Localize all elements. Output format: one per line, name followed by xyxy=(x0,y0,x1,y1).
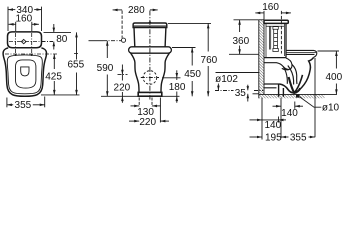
bowl outer outline (top view) xyxy=(3,48,46,96)
drain level extension xyxy=(162,77,181,79)
base plinth xyxy=(138,92,162,96)
svg-text:400: 400 xyxy=(325,72,342,83)
floor line left xyxy=(101,95,138,97)
svg-text:180: 180 xyxy=(169,82,186,93)
dim 140 lower line xyxy=(250,119,263,121)
dim 355 extension lines xyxy=(6,98,8,108)
dim 280 line xyxy=(113,9,123,11)
dim 340 extension lines xyxy=(7,7,9,31)
svg-text:195: 195 xyxy=(265,132,282,143)
inlet height line xyxy=(89,40,104,42)
dim 35 arrows xyxy=(247,85,249,91)
seat hinge axis line xyxy=(5,53,57,55)
cistern centerline xyxy=(9,41,40,43)
floor line right xyxy=(162,95,180,97)
tank body side xyxy=(264,23,286,57)
seat band front xyxy=(129,47,172,53)
dim 590 line xyxy=(106,41,108,58)
hinge bolt left xyxy=(15,54,17,56)
tank body front xyxy=(134,28,166,47)
svg-text:355: 355 xyxy=(15,100,32,111)
outlet tick below floor xyxy=(294,102,296,109)
bowl profile side xyxy=(294,57,313,93)
dim o102 leader xyxy=(217,84,219,91)
front extension line xyxy=(41,94,80,96)
svg-text:590: 590 xyxy=(97,63,114,74)
dim 160 fixing dashed line xyxy=(280,11,282,54)
flush button mark xyxy=(148,21,152,23)
dim 195 line xyxy=(250,136,263,138)
fixing line extension below floor xyxy=(280,98,282,138)
bowl pedestal right edge xyxy=(161,53,169,92)
dimensions of view 1 xyxy=(8,7,42,31)
dim 655 line xyxy=(76,32,78,59)
overflow tube xyxy=(269,26,270,49)
inlet offset dashed line xyxy=(121,11,123,38)
extension line cistern back edge xyxy=(44,31,72,33)
outlet centerline xyxy=(215,90,234,92)
tank top extension xyxy=(168,22,211,24)
seat slab side xyxy=(286,50,317,57)
svg-text:360: 360 xyxy=(232,36,249,47)
svg-text:355: 355 xyxy=(290,132,307,143)
hinge centerline right xyxy=(31,33,33,57)
dim 450 line xyxy=(191,48,193,66)
hinge bolt right xyxy=(31,54,33,56)
lid band line xyxy=(133,25,167,27)
vertical outlet pipe legs xyxy=(279,84,284,97)
svg-text:140: 140 xyxy=(281,108,298,119)
bowl pedestal left edge xyxy=(131,53,139,92)
floor section hatched xyxy=(259,94,325,98)
dim 220 width line xyxy=(129,120,139,122)
floor surface line xyxy=(259,93,337,95)
low inlet level tick xyxy=(118,74,128,76)
seat ring inner line xyxy=(7,55,42,94)
seat opening xyxy=(16,60,36,88)
dim 80 arrows xyxy=(53,24,55,32)
trap V right leg xyxy=(294,75,302,93)
svg-text:80: 80 xyxy=(56,34,68,45)
dim 355 side line xyxy=(309,136,316,138)
drain cross line xyxy=(141,77,159,79)
dim 220 height arrows xyxy=(121,65,123,75)
seat level extension xyxy=(172,47,196,49)
svg-text:450: 450 xyxy=(184,69,201,80)
svg-text:280: 280 xyxy=(128,5,145,16)
cistern lid front xyxy=(133,23,167,28)
outlet level extension line xyxy=(216,72,259,74)
svg-text:140: 140 xyxy=(264,120,281,131)
hinge centerline left xyxy=(15,33,17,57)
dim 180 arrows xyxy=(176,70,178,78)
dim 160 line xyxy=(255,12,264,14)
cistern (top view) xyxy=(8,32,42,48)
dim 760 line xyxy=(207,23,209,51)
wall section hatched xyxy=(259,20,264,95)
dim 160 wall line xyxy=(263,11,265,20)
lateral inlet circle xyxy=(121,38,125,42)
extension cistern centerline right xyxy=(42,41,54,43)
base edge tick left xyxy=(138,98,140,107)
base edge tick right long xyxy=(159,98,161,123)
flush cup detail xyxy=(21,67,29,76)
base center tick xyxy=(151,98,153,107)
lid button diamond xyxy=(21,39,26,43)
svg-text:35: 35 xyxy=(235,88,247,99)
dim 130 line xyxy=(131,105,140,107)
seat front extension line xyxy=(314,58,316,137)
dim 140 upper line xyxy=(273,105,282,107)
dim o10 leader xyxy=(300,97,322,107)
seat top extension right xyxy=(318,50,340,52)
inlet level extension left xyxy=(229,53,259,55)
svg-text:160: 160 xyxy=(15,13,32,24)
dim 425 line xyxy=(53,54,55,69)
dim 400 line xyxy=(335,51,337,69)
tank top extension left xyxy=(234,19,259,21)
svg-text:ø102: ø102 xyxy=(215,74,238,85)
tank inner walls xyxy=(266,23,284,57)
svg-text:220: 220 xyxy=(139,117,156,128)
toilet centerline xyxy=(149,11,151,100)
hinge axis extension at 655 line xyxy=(74,53,80,55)
outlet pipe stub to wall xyxy=(264,84,280,88)
wall face extension below floor xyxy=(261,98,263,140)
junction curve xyxy=(280,84,295,93)
dim 355 line xyxy=(7,104,13,106)
svg-text:160: 160 xyxy=(262,2,279,13)
svg-text:ø10: ø10 xyxy=(322,102,340,113)
anchor hole mark on floor xyxy=(296,95,299,98)
svg-text:760: 760 xyxy=(201,55,218,66)
trap weir curves xyxy=(283,64,297,84)
dim 360 line xyxy=(239,20,241,32)
trap V bold xyxy=(289,77,301,93)
bowl back and trap xyxy=(264,58,292,70)
tank lid side xyxy=(264,20,288,23)
floor level line left of wall xyxy=(253,93,259,95)
dim 160 extension lines xyxy=(15,22,17,31)
drain circle dashed xyxy=(143,71,157,85)
svg-text:655: 655 xyxy=(67,60,84,71)
dim 340 line xyxy=(8,9,15,11)
dim 160 line with outside arrows xyxy=(9,23,16,25)
fill valve in tank xyxy=(273,27,278,52)
svg-text:425: 425 xyxy=(45,72,62,83)
svg-text:220: 220 xyxy=(114,83,131,94)
wall face line xyxy=(263,20,265,95)
